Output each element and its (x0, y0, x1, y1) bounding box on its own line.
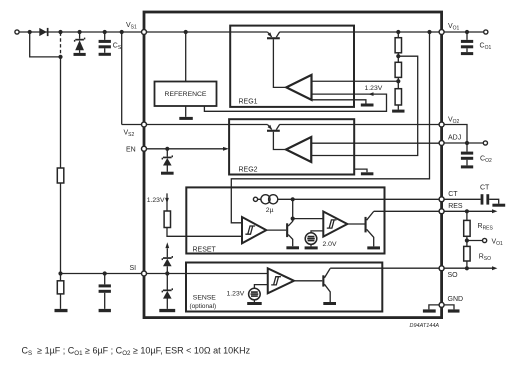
svg-text:CT: CT (448, 191, 458, 198)
svg-text:D94AT144A: D94AT144A (410, 323, 440, 329)
svg-text:1.23V: 1.23V (147, 197, 165, 204)
svg-text:REG1: REG1 (239, 98, 258, 105)
svg-text:RES: RES (448, 203, 463, 210)
svg-text:EN: EN (126, 146, 136, 153)
svg-text:REG2: REG2 (239, 166, 258, 173)
svg-text:SENSE: SENSE (193, 294, 217, 301)
svg-text:REFERENCE: REFERENCE (165, 91, 207, 98)
svg-text:GND: GND (448, 296, 464, 303)
svg-text:2.0V: 2.0V (323, 241, 337, 248)
svg-text:1.23V: 1.23V (365, 85, 383, 92)
svg-text:1.23V: 1.23V (227, 291, 245, 298)
svg-text:SI: SI (130, 265, 137, 272)
svg-text:ADJ: ADJ (448, 135, 461, 142)
svg-text:CS ≥ 1µF ; CO1 ≥ 6µF ; CO2 ≥: CS ≥ 1µF ; CO1 ≥ 6µF ; CO2 ≥ 10µF, ESR <… (22, 345, 251, 357)
svg-text:RESET: RESET (193, 247, 217, 254)
svg-text:2µ: 2µ (266, 207, 274, 214)
svg-text:(optional): (optional) (190, 303, 217, 310)
svg-text:SO: SO (448, 272, 459, 279)
svg-text:CT: CT (480, 185, 490, 192)
